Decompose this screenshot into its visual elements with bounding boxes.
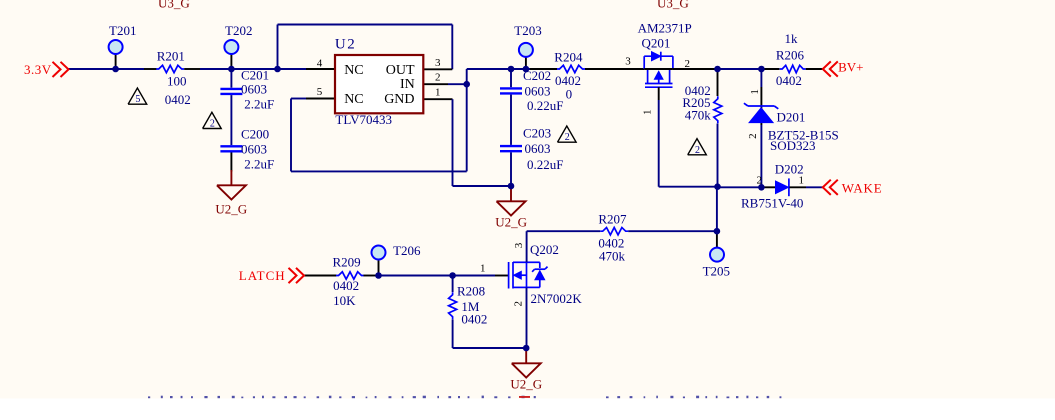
svg-text:2: 2	[210, 119, 215, 130]
svg-text:3.3V: 3.3V	[24, 62, 52, 77]
svg-text:470k: 470k	[599, 248, 626, 263]
svg-text:D201: D201	[777, 109, 806, 124]
svg-text:T201: T201	[109, 23, 136, 38]
svg-text:2.2uF: 2.2uF	[244, 157, 274, 172]
svg-text:2N7002K: 2N7002K	[531, 291, 583, 306]
svg-text:U3_G: U3_G	[657, 0, 689, 10]
svg-text:RB751V-40: RB751V-40	[741, 196, 803, 211]
svg-text:0402: 0402	[776, 73, 802, 88]
svg-text:R204: R204	[554, 49, 583, 64]
svg-text:10K: 10K	[333, 293, 356, 308]
svg-text:GND: GND	[384, 92, 414, 107]
svg-text:T206: T206	[393, 243, 421, 258]
svg-text:C203: C203	[523, 125, 551, 140]
svg-text:WAKE: WAKE	[842, 180, 883, 195]
svg-text:R201: R201	[157, 49, 185, 64]
svg-text:0603: 0603	[241, 82, 267, 97]
svg-text:5: 5	[317, 86, 323, 98]
svg-text:R209: R209	[333, 255, 361, 270]
svg-text:0603: 0603	[525, 141, 551, 156]
svg-text:1k: 1k	[785, 31, 799, 46]
svg-text:SOD323: SOD323	[770, 138, 816, 153]
svg-text:0402: 0402	[333, 278, 359, 293]
svg-text:Q201: Q201	[642, 35, 671, 50]
svg-text:T203: T203	[514, 23, 541, 38]
svg-text:4: 4	[317, 58, 323, 70]
svg-text:0.22uF: 0.22uF	[527, 157, 563, 172]
svg-text:100: 100	[167, 73, 187, 88]
svg-text:1: 1	[480, 263, 486, 275]
svg-text:U2_G: U2_G	[510, 377, 542, 392]
svg-text:T205: T205	[703, 263, 730, 278]
svg-text:470k: 470k	[685, 108, 712, 123]
svg-text:0: 0	[566, 87, 573, 102]
svg-text:U2: U2	[335, 37, 356, 53]
svg-text:2: 2	[757, 175, 763, 187]
svg-text:BV+: BV+	[838, 60, 863, 75]
svg-text:U3_G: U3_G	[158, 0, 190, 10]
svg-text:OUT: OUT	[386, 63, 415, 78]
svg-text:2.2uF: 2.2uF	[244, 97, 274, 112]
svg-text:NC: NC	[344, 63, 363, 78]
svg-text:0402: 0402	[461, 312, 487, 327]
svg-text:2: 2	[435, 72, 441, 84]
svg-text:0603: 0603	[241, 142, 267, 157]
svg-text:2: 2	[685, 58, 691, 70]
svg-text:1: 1	[749, 89, 761, 95]
svg-text:LATCH: LATCH	[239, 268, 286, 283]
svg-text:3: 3	[625, 56, 631, 68]
svg-text:1: 1	[435, 87, 441, 99]
svg-text:R208: R208	[457, 284, 485, 299]
svg-text:1: 1	[642, 109, 654, 115]
svg-text:NC: NC	[344, 92, 363, 107]
svg-text:0.22uF: 0.22uF	[527, 98, 563, 113]
svg-text:R207: R207	[598, 211, 627, 226]
svg-text:3: 3	[513, 242, 525, 248]
svg-text:0603: 0603	[525, 84, 551, 99]
svg-text:IN: IN	[400, 77, 415, 92]
svg-text:U2_G: U2_G	[215, 202, 247, 217]
svg-text:2: 2	[695, 145, 700, 156]
svg-text:U2_G: U2_G	[495, 214, 527, 229]
svg-text:2: 2	[565, 132, 570, 143]
svg-text:5: 5	[135, 94, 140, 105]
svg-text:C200: C200	[241, 127, 269, 142]
svg-text:1: 1	[799, 175, 805, 187]
svg-text:C201: C201	[241, 67, 269, 82]
svg-text:2: 2	[512, 301, 524, 307]
svg-text:TLV70433: TLV70433	[335, 112, 392, 127]
svg-text:0402: 0402	[165, 92, 191, 107]
svg-text:Q202: Q202	[530, 242, 559, 257]
svg-text:R206: R206	[776, 47, 805, 62]
svg-text:C202: C202	[523, 68, 551, 83]
svg-text:AM2371P: AM2371P	[638, 21, 692, 36]
svg-text:2: 2	[747, 133, 759, 139]
svg-text:3: 3	[435, 57, 441, 69]
svg-text:T202: T202	[225, 23, 252, 38]
